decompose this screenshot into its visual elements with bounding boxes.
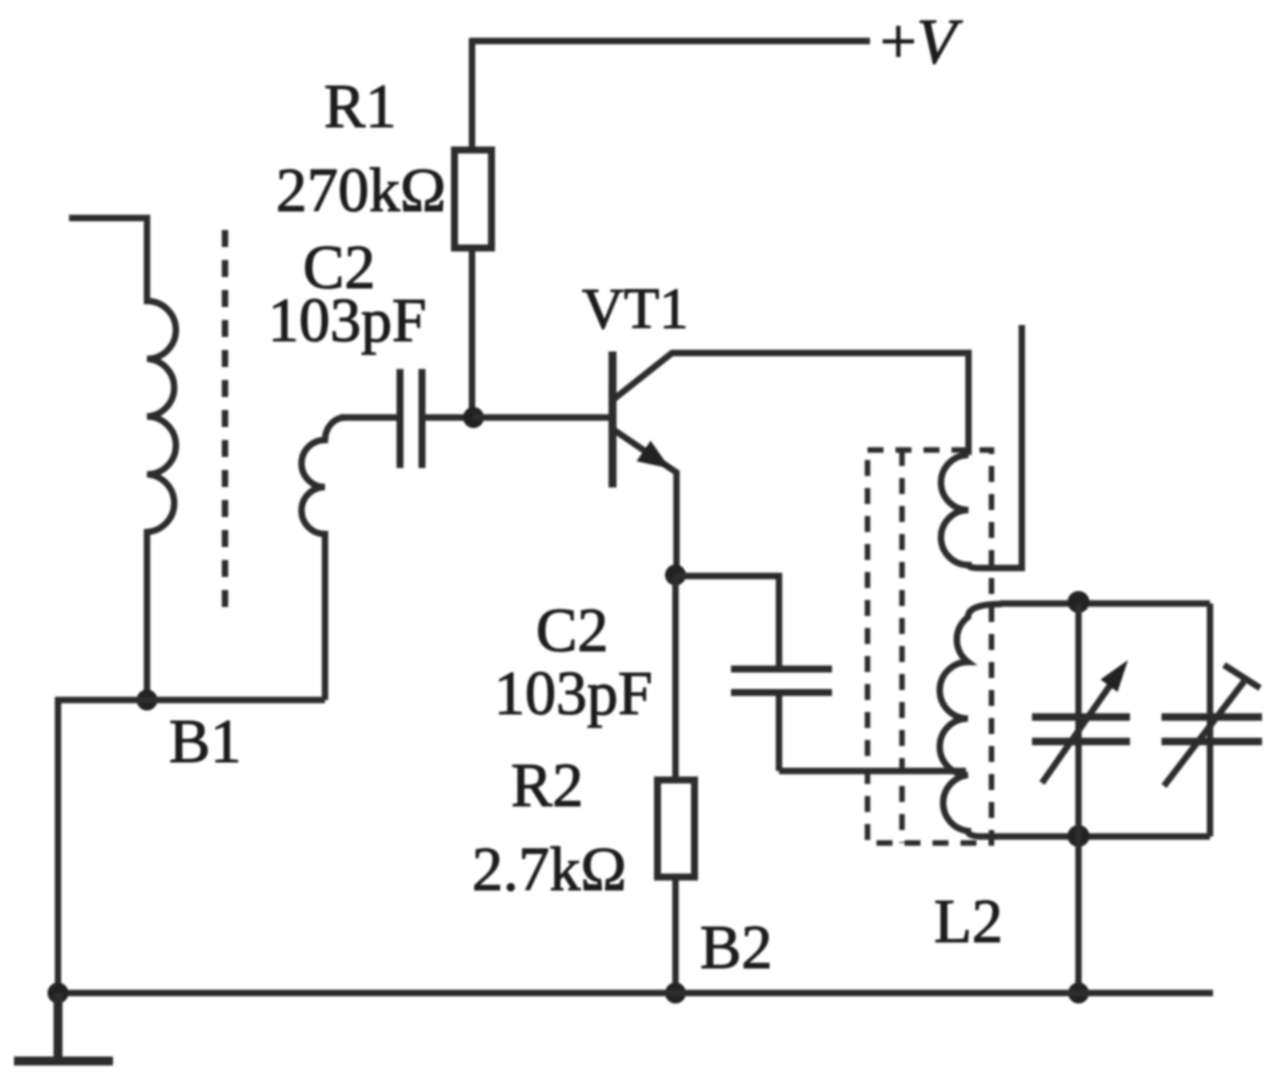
- transformer L2 core dashed line: [899, 450, 905, 843]
- svg-text:103pF: 103pF: [268, 287, 426, 355]
- svg-text:103pF: 103pF: [494, 660, 652, 728]
- variable capacitor C3 arrow: [1042, 674, 1118, 783]
- capacitor C2 coupling plates: [397, 369, 404, 468]
- resistor R2: [658, 780, 695, 877]
- wire R1 bottom to base node: [469, 248, 475, 418]
- svg-text:R1: R1: [324, 73, 396, 141]
- wire B1 bottom to left rail and secondary: [58, 700, 325, 993]
- svg-text:B2: B2: [700, 914, 772, 982]
- wire tank right vertical: [1207, 604, 1213, 837]
- wire +V top rail: [470, 38, 870, 44]
- node B1 bottom junction: [137, 690, 158, 711]
- svg-text:B1: B1: [169, 708, 241, 776]
- transistor VT1 base bar: [609, 352, 617, 488]
- node tank top left: [1068, 591, 1090, 613]
- wire emitter node to bypass C2: [676, 576, 780, 666]
- node emitter junction: [665, 565, 686, 586]
- wire base node to VT1 base: [473, 414, 609, 420]
- wire emitter node to R2: [672, 575, 678, 780]
- node tank ground junction: [1068, 983, 1089, 1004]
- wire tank top rail: [1000, 600, 1210, 606]
- transistor VT1 emitter wire: [614, 430, 677, 575]
- inductor L2 secondary winding: [940, 604, 1002, 837]
- wire C2 right plate to base node: [425, 414, 470, 420]
- inductor L2 primary winding: [941, 325, 1022, 568]
- transistor VT1 collector wire: [614, 353, 969, 455]
- node tank bottom left: [1068, 825, 1090, 847]
- trimmer capacitor C4 adjuster: [1164, 682, 1244, 787]
- capacitor C2 bypass plates: [731, 666, 832, 673]
- svg-text:L2: L2: [934, 888, 1003, 956]
- node ground rail left: [48, 983, 69, 1004]
- transformer B1 core dashed line: [222, 230, 228, 607]
- wire varcap vertical: [1075, 604, 1081, 837]
- svg-text:+V: +V: [880, 6, 963, 78]
- wire tank to ground rail: [1075, 836, 1081, 993]
- wire rail to R1 top: [469, 38, 475, 150]
- trimmer capacitor C4 plates: [1162, 713, 1263, 721]
- wire bypass C2 to L2 tap: [779, 696, 966, 771]
- ground symbol: [14, 993, 113, 1061]
- wire B1 secondary to C2 left plate: [340, 414, 397, 420]
- transistor VT1 emitter arrow: [637, 441, 671, 469]
- node R2 bottom junction: [665, 983, 686, 1004]
- wire tank bottom rail: [980, 833, 1210, 839]
- wire R2 bottom to ground rail: [672, 877, 678, 993]
- transformer L2 shield dashed box: [868, 450, 992, 843]
- transformer B1 primary winding: [69, 218, 176, 700]
- wire ground rail: [58, 990, 1213, 996]
- variable capacitor C3 plates: [1032, 713, 1130, 721]
- svg-text:R2: R2: [511, 752, 583, 820]
- svg-text:VT1: VT1: [582, 276, 688, 341]
- transformer B1 secondary winding: [302, 417, 346, 700]
- svg-text:2.7kΩ: 2.7kΩ: [472, 836, 627, 904]
- node base junction: [463, 407, 484, 428]
- svg-text:C2: C2: [536, 597, 608, 665]
- svg-text:270kΩ: 270kΩ: [276, 157, 446, 225]
- resistor R1: [455, 150, 492, 248]
